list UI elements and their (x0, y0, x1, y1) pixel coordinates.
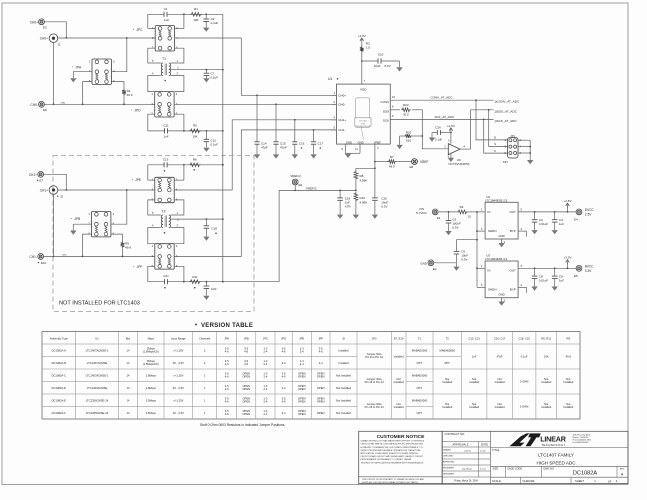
svg-text:JPE: JPE (299, 337, 304, 341)
wire VREF to divider (356, 162, 376, 171)
svg-text:510: 510 (406, 138, 411, 142)
wire C13-R6 line (148, 164, 224, 180)
ground at C18 (203, 237, 209, 241)
svg-text:JPC: JPC (263, 337, 268, 341)
svg-text:+2.5V: +2.5V (564, 199, 572, 203)
transformer T2 top frame (148, 200, 184, 215)
svg-text:+3.3V: +3.3V (358, 34, 366, 38)
svg-text:SHDN: SHDN (488, 229, 497, 233)
wire CH0- to ADC pin 2 (174, 103, 336, 105)
svg-text:NOT INSTALLED FOR LTC1403: NOT INSTALLED FOR LTC1403 (59, 301, 140, 307)
svg-text:))SDO_AT_ADC: ))SDO_AT_ADC (495, 109, 518, 113)
capacitor C9 (552, 268, 564, 286)
svg-text:14: 14 (127, 348, 130, 352)
wire E7 to J2 node (44, 174, 67, 190)
ground at U6 (448, 158, 454, 162)
wire JPE pin2 vertical (174, 165, 184, 180)
svg-text:2-4: 2-4 (300, 362, 304, 366)
svg-text:CH1+: CH1+ (338, 118, 346, 122)
svg-text:2.8Msps: 2.8Msps (146, 386, 157, 390)
capacitor C7 (204, 70, 219, 80)
svg-text:X7R: X7R (345, 205, 352, 209)
svg-text:4-6: 4-6 (225, 412, 229, 416)
turret E2 GND (420, 260, 437, 271)
svg-text:4-6: 4-6 (319, 350, 323, 354)
wire JPA pin 6 to R4 (111, 82, 124, 89)
svg-text:4-7-04: 4-7-04 (480, 451, 485, 453)
svg-text:E1: E1 (437, 216, 441, 220)
svg-text:Guy Hoover: Guy Hoover (462, 468, 472, 471)
wire SDO pin to U6 input (421, 110, 448, 149)
svg-text:VDD: VDD (360, 87, 367, 91)
wire JPB pin 5 to CH1- rail (82, 234, 92, 257)
svg-text:2-4: 2-4 (263, 412, 267, 416)
svg-text:C11: C11 (163, 123, 169, 127)
svg-text:E10: E10 (41, 261, 47, 265)
svg-text:5-7VDC: 5-7VDC (416, 211, 428, 215)
svg-text:+/-1.25V: +/-1.25V (173, 348, 183, 352)
svg-text:6.3V: 6.3V (384, 64, 390, 68)
svg-text:0V - 2.5V: 0V - 2.5V (173, 361, 184, 365)
wire VREF/2 to CH1 bias rail (223, 190, 279, 281)
capacitor C22 (204, 282, 217, 296)
svg-text:(1.5Msps/Ch): (1.5Msps/Ch) (143, 362, 159, 366)
svg-text:R7: R7 (390, 155, 394, 159)
svg-text:DC1082A-A: DC1082A-A (52, 348, 67, 352)
wire bias rail CH1 (222, 131, 224, 283)
svg-text:IN: IN (487, 210, 490, 214)
svg-text:Installed: Installed (394, 405, 405, 409)
svg-text:SIZE: SIZE (493, 468, 499, 471)
ground at C8 (531, 287, 537, 291)
wire R9 to CH1- rail (122, 248, 124, 257)
wire U3 GND pin (502, 298, 506, 303)
ground at C19 (337, 215, 343, 219)
svg-text:0 OHM: 0 OHM (520, 405, 529, 409)
svg-text:SCALE:: SCALE: (492, 479, 502, 483)
ground at C10 (396, 67, 402, 71)
svg-text:Installed: Installed (394, 380, 405, 384)
wire JPF pins 5/6 to C21 line (148, 266, 184, 281)
version table (42, 332, 580, 420)
svg-text:Installed: Installed (469, 405, 480, 409)
svg-text:10K: 10K (544, 355, 549, 359)
svg-text:S: S (494, 142, 496, 146)
svg-text:CH1+: CH1+ (40, 189, 48, 193)
svg-text:C21: C21 (163, 274, 169, 278)
svg-text:Milpitas, CA 95035: Milpitas, CA 95035 (573, 436, 589, 439)
capacitor C2 (203, 14, 218, 27)
wire J1 shield down to CH0- rail (53, 43, 55, 106)
svg-text:))CONV_AT_ADC: ))CONV_AT_ADC (495, 99, 520, 103)
wire JPA pin 5 to CH0- rail (82, 82, 92, 106)
svg-text:2-4: 2-4 (263, 350, 267, 354)
jumper block JPC (133, 26, 178, 51)
svg-text:C22: C22 (211, 287, 217, 291)
resistor R7 (375, 155, 412, 169)
svg-text:E3: E3 (43, 26, 47, 30)
svg-text:Msps: Msps (148, 337, 155, 341)
svg-text:C10: C10 (378, 52, 384, 56)
svg-text:J2: J2 (342, 337, 345, 341)
svg-text:GND: GND (420, 261, 428, 265)
transformer T1 center tap wire (170, 66, 222, 71)
svg-text:APPROVED: APPROVED (443, 461, 455, 464)
svg-text:49.9: 49.9 (127, 93, 133, 97)
svg-text:E6: E6 (43, 108, 47, 112)
svg-text:DVCC: DVCC (585, 208, 595, 212)
svg-text:U1: U1 (328, 77, 332, 81)
svg-text:C16: C16 (299, 141, 305, 145)
wire U2 BYP stub (518, 227, 526, 237)
sheet field (492, 479, 618, 483)
+3.3V supply at U3 output (564, 256, 572, 269)
svg-text:CH0-: CH0- (338, 103, 345, 107)
svg-text:Not Installed: Not Installed (336, 398, 351, 402)
svg-text:OPT.: OPT. (417, 386, 423, 390)
node SCK_AT_ADC (495, 119, 518, 123)
svg-text:DATE: DATE (481, 443, 488, 447)
svg-text:2-4: 2-4 (263, 387, 267, 391)
ground at C9 (552, 287, 558, 291)
turret E4 DVCC (574, 208, 595, 222)
svg-text:JPF: JPF (137, 265, 143, 269)
transformer T1 bottom frame (148, 72, 184, 92)
transformer T1 top frame (148, 48, 184, 63)
capacitor C21 (163, 274, 169, 288)
ground at C4 (552, 230, 558, 234)
svg-text:E8: E8 (410, 165, 414, 169)
svg-text:MABAE0060: MABAE0060 (412, 348, 428, 352)
resistor R23 (400, 131, 423, 143)
wire C21-R11 line (148, 281, 223, 283)
svg-text:A: A (621, 472, 624, 477)
svg-text:3.5Msps: 3.5Msps (146, 398, 157, 402)
svg-text:49.9: 49.9 (125, 246, 131, 250)
wire CONV line (390, 95, 493, 101)
svg-text:GND: GND (346, 141, 352, 145)
svg-text:OPEN: OPEN (242, 387, 250, 391)
svg-text:Pin 16 to Pin 24: Pin 16 to Pin 24 (365, 380, 384, 384)
svg-text:LTC2356CMSE-14: LTC2356CMSE-14 (86, 398, 109, 402)
svg-text:R22: R22 (403, 103, 409, 107)
capacitor C4 (552, 212, 564, 230)
capacitor C17 (311, 130, 323, 155)
svg-text:MABAE0060: MABAE0060 (412, 398, 428, 402)
wire JPC pin2 vertical (175, 14, 184, 28)
svg-text:PERFORMANCE OR RELIABILITY. C: PERFORMANCE OR RELIABILITY. CONTACT LINE… (361, 458, 412, 461)
svg-text:CONTRACT NO.: CONTRACT NO. (445, 432, 466, 436)
svg-text:BYP: BYP (510, 229, 516, 233)
svg-text:0 OHM: 0 OHM (520, 380, 529, 384)
svg-text:D: D (494, 136, 496, 140)
svg-text:OUT: OUT (509, 210, 516, 214)
svg-text:VERIFY PROPER AND RELIABLE OPE: VERIFY PROPER AND RELIABLE OPERATION IN … (361, 449, 422, 452)
jumper block JPB (71, 212, 115, 237)
svg-text:R1: R1 (194, 7, 198, 11)
svg-text:JPD: JPD (135, 109, 142, 113)
svg-text:BYP: BYP (510, 288, 516, 292)
svg-text:VREF/2: VREF/2 (306, 186, 317, 190)
wire E1 to R2 (438, 211, 457, 213)
svg-text:0.01uF: 0.01uF (539, 222, 549, 226)
wire U2 SHDN (477, 227, 485, 231)
svg-text:C: C (494, 149, 496, 153)
svg-text:OPEN: OPEN (317, 386, 325, 390)
resistor R8 (354, 170, 367, 190)
svg-text:4-7-04: 4-7-04 (480, 469, 485, 471)
svg-text:1uF: 1uF (559, 222, 564, 226)
wire C1-R1 top rail (148, 13, 223, 28)
svg-text:DWG NO: DWG NO (544, 468, 555, 471)
svg-text:0V - 2.5V: 0V - 2.5V (173, 411, 184, 415)
wire CH1- rail to JPF pin 3 (44, 255, 155, 257)
svg-text:OPT.: OPT. (417, 361, 423, 365)
U1 GND pins 6 and 11 (342, 144, 360, 153)
svg-text:TECHNOLOGY: TECHNOLOGY (541, 443, 566, 447)
svg-text:SCK_AT_ADC: SCK_AT_ADC (435, 115, 455, 119)
svg-text:CH0-: CH0- (61, 102, 66, 104)
svg-text:R9: R9 (567, 337, 571, 341)
svg-text:1.0: 1.0 (366, 46, 371, 50)
svg-text:CUSTOMER NOTICE: CUSTOMER NOTICE (377, 434, 425, 440)
wire CH0- rail to JPD pin 3 (44, 102, 154, 104)
ground at R10 (353, 215, 359, 219)
U6 pin 3 ground (447, 153, 450, 159)
svg-text:SUPPLIED FOR USE WITH LINEAR T: SUPPLIED FOR USE WITH LINEAR TECHNOLOGY … (362, 481, 419, 484)
ground at C5 (445, 231, 451, 235)
turret E1 VIN (416, 207, 441, 220)
svg-text:CH1-: CH1- (338, 128, 345, 132)
wire JPB pin 4 to CH1+ line (111, 189, 128, 224)
wire R23 to ground (399, 136, 401, 145)
svg-text:))SCK_AT_ADC: ))SCK_AT_ADC (495, 119, 518, 123)
svg-text:4-6: 4-6 (225, 362, 229, 366)
svg-text:U1: U1 (95, 337, 99, 341)
op-amp U2 regulator LTC1844ES5-2.5 (485, 195, 518, 239)
wire R4 to CH0- rail (123, 96, 125, 105)
svg-text:Installed: Installed (563, 380, 574, 384)
svg-text:0.01uF: 0.01uF (539, 278, 549, 282)
wire SDO to JP1 pin 3 (489, 110, 508, 147)
svg-text:CONV: CONV (380, 100, 389, 104)
resistor R6 (189, 157, 201, 170)
svg-text:OPEN: OPEN (242, 400, 250, 404)
svg-text:0.1uF: 0.1uF (521, 355, 528, 359)
svg-text:+/-1.25V: +/-1.25V (173, 373, 183, 377)
svg-text:Not Installed: Not Installed (336, 386, 351, 390)
svg-text:VREF: VREF (420, 160, 429, 164)
svg-text:TITLE: TITLE (492, 448, 500, 452)
svg-text:R6: R6 (193, 157, 197, 161)
capacitor C8 (532, 268, 549, 286)
svg-text:CH0+: CH0+ (40, 37, 48, 41)
svg-text:DC1082A-D: DC1082A-D (52, 386, 67, 390)
transformer T2 center tap wire (170, 217, 222, 221)
svg-text:6.3V: 6.3V (452, 226, 458, 230)
wire input bus (476, 211, 478, 287)
svg-text:Installed: Installed (541, 380, 552, 384)
svg-text:Installed: Installed (442, 380, 453, 384)
wire U3 BYP stub (518, 283, 526, 293)
title block frame (442, 431, 628, 483)
Linear Technology logo (510, 433, 591, 447)
svg-text:C26: C26 (435, 125, 441, 129)
svg-text:0.1uF: 0.1uF (210, 76, 218, 80)
svg-text:CH1-: CH1- (62, 255, 67, 257)
resistor R11 (189, 275, 201, 289)
svg-text:TECHNOLOGY APPLICATIONS ENGINE: TECHNOLOGY APPLICATIONS ENGINEERING FOR … (361, 461, 425, 464)
svg-text:R10: R10 (360, 196, 366, 200)
svg-text:3-4: 3-4 (282, 361, 286, 365)
svg-text:E5: E5 (574, 274, 578, 278)
svg-text:AVCC: AVCC (585, 264, 594, 268)
op-amp U3 regulator LTC1844ES5-3.3 (485, 253, 518, 297)
svg-text:1uF: 1uF (163, 134, 168, 138)
ground at C14 (254, 154, 260, 158)
svg-text:CIRCUIT BOARD LAYOUT MAY SIGNI: CIRCUIT BOARD LAYOUT MAY SIGNIFICANTLY A… (361, 455, 424, 458)
svg-text:C13, C21: C13, C21 (468, 337, 480, 341)
svg-text:1uF: 1uF (559, 278, 564, 282)
ground at C20 (372, 215, 378, 219)
svg-text:4-6: 4-6 (225, 387, 229, 391)
svg-text:SPI: SPI (503, 160, 508, 164)
dashed box NOT INSTALLED FOR LTC1403 (53, 156, 254, 312)
U1 pin 4 stub (332, 116, 337, 120)
svg-text:T1: T1 (418, 337, 422, 341)
svg-text:Installed: Installed (495, 405, 506, 409)
capacitor C12 (204, 131, 219, 148)
svg-text:OPEN: OPEN (298, 412, 306, 416)
svg-text:Installed: Installed (469, 380, 480, 384)
svg-text:2-4: 2-4 (300, 350, 304, 354)
svg-text:DC1082A-B: DC1082A-B (52, 361, 67, 365)
svg-text:CHECKED: CHECKED (443, 456, 454, 458)
svg-text:C13: C13 (163, 157, 169, 161)
svg-text:OPEN: OPEN (298, 400, 306, 404)
capacitor C15 (273, 104, 287, 154)
ground at C3 (531, 230, 537, 234)
turret E3 (30, 19, 47, 30)
svg-text:14: 14 (127, 373, 130, 377)
svg-text:APPROVALS: APPROVALS (452, 443, 468, 447)
capacitor C6 (454, 240, 477, 263)
svg-text:CONV_AT_ADC: CONV_AT_ADC (431, 96, 454, 100)
node J2/E7 junction (65, 189, 67, 191)
svg-text:JPE: JPE (135, 178, 141, 182)
transformer T2 (161, 215, 170, 228)
svg-text:Stuff 0 Ohm 0603 Resistors in: Stuff 0 Ohm 0603 Resistors in Indicated … (200, 423, 285, 427)
wire VREF/2 line (279, 186, 357, 191)
svg-text:510: 510 (403, 113, 408, 117)
svg-text:OPEN: OPEN (242, 375, 250, 379)
svg-text:Installed: Installed (394, 355, 405, 359)
resistor R4 (122, 89, 133, 98)
node J1/E3 junction (65, 37, 67, 39)
svg-text:DC1082A-C: DC1082A-C (52, 373, 67, 377)
svg-text:Assembly Type: Assembly Type (50, 337, 69, 341)
svg-text:3.3V: 3.3V (585, 269, 592, 273)
+2.5V supply at U6 (447, 124, 455, 144)
svg-text:C18: C18 (211, 226, 217, 230)
svg-text:Input Range: Input Range (171, 337, 186, 341)
svg-text:CAGE CODE: CAGE CODE (507, 468, 522, 471)
turret E9 VREF/2 (290, 174, 302, 190)
svg-text:R11: R11 (192, 275, 198, 279)
svg-text:10K: 10K (192, 134, 197, 138)
svg-text:ENGINEER: ENGINEER (443, 468, 454, 470)
svg-text:JPA: JPA (224, 337, 229, 341)
ground at C6 (453, 263, 459, 271)
svg-text:47pF: 47pF (280, 146, 287, 150)
svg-text:4-6: 4-6 (225, 400, 229, 404)
svg-text:CIRCUIT THAT MEETS CUSTOMER-SU: CIRCUIT THAT MEETS CUSTOMER-SUPPLIED SPE… (361, 443, 424, 446)
op-amp U1 LTC1407 ADC (328, 77, 390, 145)
ground at C15 (273, 154, 279, 158)
svg-text:Installed: Installed (495, 380, 506, 384)
svg-text:CH0+: CH0+ (30, 20, 38, 24)
svg-text:E4: E4 (574, 218, 578, 222)
ground at U3 (498, 302, 504, 306)
jumper block JPA (72, 59, 115, 84)
resistor R22 (390, 103, 422, 117)
svg-text:LTC1407ACMSE: LTC1407ACMSE (87, 361, 108, 365)
ground at C16 (292, 154, 298, 158)
ground at JPB (70, 231, 76, 235)
svg-text:4-6: 4-6 (244, 362, 248, 366)
capacitor C3 (532, 212, 549, 230)
capacitor C20 (372, 168, 388, 214)
svg-text:4-6: 4-6 (282, 375, 286, 379)
svg-text:CH0+: CH0+ (338, 94, 346, 98)
U1 pin 2 stub (332, 100, 337, 104)
svg-text:DC1082A-F: DC1082A-F (52, 411, 67, 415)
svg-text:3-4: 3-4 (282, 411, 286, 415)
svg-text:CH1-: CH1- (30, 255, 37, 259)
svg-text:JPC: JPC (137, 28, 144, 32)
svg-text:HIGH SPEED ADC: HIGH SPEED ADC (536, 460, 576, 465)
svg-text:14: 14 (127, 411, 130, 415)
svg-text:OPEN: OPEN (242, 412, 250, 416)
ground at R23 (396, 145, 402, 149)
turret E10 (30, 254, 47, 265)
wire J2 shield down to CH1- rail (53, 194, 55, 257)
U1 pin 5 stub (332, 126, 337, 130)
wire SCK to JP1 pin 5 (484, 119, 508, 153)
turret E7 (29, 171, 44, 182)
svg-text:LTC1407: LTC1407 (359, 120, 368, 122)
contract no field (445, 432, 466, 436)
svg-text:APPLICATION. COMPONENT SUBSTI: APPLICATION. COMPONENT SUBSTITUTION AND … (361, 452, 419, 455)
resistor R1 (190, 7, 202, 22)
svg-text:C16, C17: C16, C17 (494, 337, 506, 341)
customer notice box (359, 431, 443, 484)
svg-text:SHDN: SHDN (488, 288, 497, 292)
ground at U2 (498, 243, 504, 247)
turret E5 AVCC (574, 264, 594, 278)
capacitor C10 (362, 52, 400, 68)
U1 VDD pin 7 wire (361, 60, 366, 84)
svg-text:10K: 10K (193, 18, 198, 22)
capacitor C16 (292, 120, 304, 155)
svg-text:DRAWN: DRAWN (443, 449, 451, 452)
svg-text:VREF: VREF (374, 141, 382, 145)
svg-text:14: 14 (127, 398, 130, 402)
svg-text:0.1uF: 0.1uF (435, 138, 442, 142)
wire JPB pin 6 to R9 (111, 234, 123, 241)
ground at U1 (345, 154, 351, 158)
svg-text:JPB: JPB (244, 337, 249, 341)
